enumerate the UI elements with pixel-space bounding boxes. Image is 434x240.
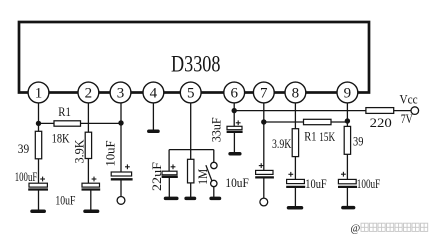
svg-text:R1: R1 [304,128,316,143]
capacitor 10uF pin8 [286,172,305,187]
ground 22uF [166,197,177,201]
pin 5 [180,82,201,103]
wire pin8 drop [294,102,296,129]
label 100uF pin1 [15,169,37,184]
IC label D3308 [171,52,221,77]
node junction pin7 [261,119,266,124]
svg-text:1M: 1M [195,168,210,184]
pin 9 [337,82,358,103]
wire pin1 drop [38,102,40,132]
label 10uF pin2 [55,193,75,208]
wire switch branch drop [213,150,215,163]
label 7V [401,111,413,126]
svg-text:1: 1 [35,86,43,102]
svg-text:D3308: D3308 [171,52,221,77]
label 220 [370,115,392,130]
node junction pin6 Vcc [232,108,237,113]
svg-text:3: 3 [117,86,125,102]
svg-text:3.9K: 3.9K [272,136,292,151]
label 100uF pin9 [357,176,380,191]
wire pin9 drop [346,102,348,126]
label 10uF pin3 rotated [102,141,117,167]
wire 22uF branch drop [168,150,170,172]
ground pin8 [289,206,302,210]
ground pin1 [32,210,44,214]
resistor 39 pin9 [344,126,350,154]
wire pin2 cap to ground [90,190,92,212]
svg-text:18K: 18K [52,131,70,146]
label 18K [52,131,70,146]
resistor 3.9K pin8 [292,129,298,157]
resistor R1 18K horizontal [54,121,81,126]
label 33uF rotated [208,117,223,142]
svg-text:4: 4 [150,86,158,102]
ground 1M [186,197,194,201]
pin 2 [78,82,99,103]
svg-text:39: 39 [18,141,29,156]
svg-text:10uF: 10uF [102,141,117,167]
terminal pin3 output [117,197,125,205]
switch S1 contacts [211,162,217,186]
svg-text:7V: 7V [401,111,413,126]
label 15K [319,129,335,144]
pin 3 [110,82,131,103]
pin 1 [28,82,49,103]
label 1M rotated [195,168,210,184]
label 10uF pin8 [305,176,326,191]
ground pin9 [343,206,354,210]
svg-text:220: 220 [370,115,392,130]
wire pin5 drop [190,102,192,160]
resistor 39 pin1 [35,131,41,159]
svg-text:6: 6 [230,86,238,102]
wire 33uF cap to ground [233,132,235,152]
wire 1M to ground [190,183,192,197]
wire R1 18K net pin1 to pin3 [39,122,122,124]
wire pin3 cap to terminal [120,179,122,196]
label R1 left [58,104,71,119]
svg-text:100uF: 100uF [15,169,37,184]
terminal Vcc supply [411,107,419,115]
resistor 1M [188,159,194,183]
capacitor 22uF [162,164,178,176]
svg-text:39: 39 [353,134,363,149]
svg-text:Vcc: Vcc [400,91,418,106]
svg-text:3.9K: 3.9K [72,139,87,164]
svg-text:2: 2 [85,86,93,102]
wire pin3 drop [120,102,122,172]
node junction pin9 [345,118,350,123]
IC U1 D3308 body [19,22,369,93]
wire switch to ground [213,187,215,197]
label 39 left [18,141,29,156]
label R1 right [304,128,316,143]
svg-text:R1: R1 [58,104,71,119]
label 39 right [353,134,363,149]
capacitor 33uF pin6 [227,120,243,131]
pin 8 [285,82,306,103]
node junction pin1 [36,121,41,126]
wire Vcc net pin6 to supply [234,110,411,112]
switch S1 lever [206,165,212,181]
svg-text:7: 7 [260,86,268,102]
svg-text:@: @ [351,224,361,235]
svg-text:9: 9 [344,86,352,102]
wire pin2 drop [87,102,89,133]
svg-text:100uF: 100uF [357,176,380,191]
terminal pin7 input [260,198,268,206]
resistor R1 15K horizontal [304,119,332,124]
watermark [351,223,428,234]
ground 33uF [230,152,240,156]
pin 6 [224,82,245,103]
label 3.9K pin2 rotated [72,139,87,164]
wire pin7 cap to terminal [263,177,265,198]
wire pin9 resistor to cap [346,154,348,179]
wire pin4 drop [152,102,154,131]
pin 7 [253,82,274,103]
wire pin8 cap to ground [294,187,296,206]
svg-text:10uF: 10uF [225,175,248,190]
pin 4 [143,82,164,103]
svg-text:8: 8 [292,86,300,102]
ground pin4 [149,130,158,134]
wire pin6 drop [233,102,235,127]
svg-text:15K: 15K [319,129,335,144]
label 22uF rotated [149,162,164,191]
wire pin1 resistor to cap [38,159,40,184]
wire 22uF cap to ground [168,177,170,197]
node junction pin3 [118,120,123,125]
wire pin9 cap to ground [346,187,348,206]
resistor 220 [366,108,394,114]
svg-text:10uF: 10uF [305,176,326,191]
svg-text:33uF: 33uF [208,117,223,142]
wire pin5 branch bus [169,149,214,151]
capacitor 10uF pin2 [82,177,101,190]
capacitor 10uF pin7 [255,163,274,177]
ground switch [211,197,219,201]
wire R1 15K net pin7 to pin9 [264,121,348,123]
label 10uF pin7 [225,175,248,190]
ground pin2 [85,210,98,214]
label Vcc [400,91,418,106]
resistor 3.9K pin2 [85,132,91,158]
wire pin1 cap to ground [38,190,40,212]
capacitor 100uF pin9 [338,172,357,187]
capacitor 100uF pin1 [28,177,48,190]
wire pin7 drop [263,102,265,170]
wire pin2 resistor to cap [87,158,89,183]
wire pin8 resistor to cap [294,157,296,180]
svg-text:5: 5 [187,86,195,102]
label 3.9K pin8 [272,136,292,151]
svg-text:10uF: 10uF [55,193,75,208]
capacitor 10uF pin3 [111,164,133,179]
